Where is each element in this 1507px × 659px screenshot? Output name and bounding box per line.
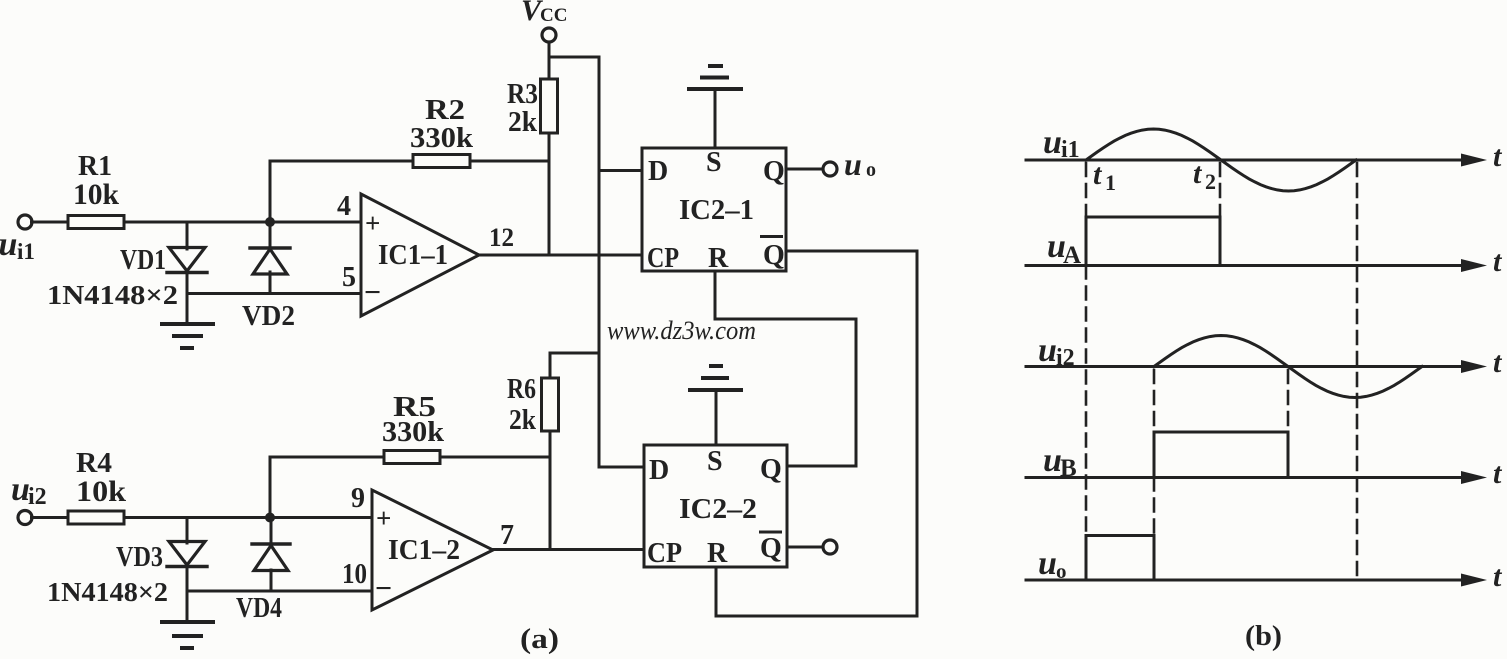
ground flipped above S IC2-2 xyxy=(690,366,741,445)
svg-text:D: D xyxy=(649,455,669,486)
svg-text:4: 4 xyxy=(337,191,351,222)
wire R6 top branch xyxy=(550,353,599,378)
wire xyxy=(32,221,69,224)
arrow axis 3 xyxy=(1461,360,1487,373)
resistor R2 xyxy=(413,155,470,168)
flip-flop IC2-2 xyxy=(644,445,787,567)
svg-text:u: u xyxy=(1038,332,1057,369)
svg-text:u: u xyxy=(1043,124,1062,161)
input terminal ui2 xyxy=(18,511,32,525)
svg-text:7: 7 xyxy=(500,520,514,551)
svg-text:10: 10 xyxy=(342,559,367,590)
svg-text:Q: Q xyxy=(760,533,782,564)
dashed line t1 xyxy=(1085,163,1088,536)
arrow axis 5 xyxy=(1461,574,1487,587)
arrow axis 1 xyxy=(1461,154,1487,167)
wire minus input 2 xyxy=(187,590,372,593)
svg-text:CP: CP xyxy=(647,538,682,569)
wire xyxy=(470,160,549,163)
svg-text:2k: 2k xyxy=(509,405,536,436)
axis uA xyxy=(1026,264,1465,267)
op-amp IC1-2 xyxy=(372,490,493,610)
wire Qbar IC2-1 to R IC2-2 xyxy=(716,251,917,616)
svg-text:R3: R3 xyxy=(507,79,538,110)
node junction ui1 xyxy=(265,217,275,227)
svg-text:o: o xyxy=(1056,559,1067,583)
svg-text:u: u xyxy=(844,146,862,182)
flip-flop IC2-1 xyxy=(642,148,786,271)
svg-text:IC2–1: IC2–1 xyxy=(679,195,754,226)
svg-text:1: 1 xyxy=(1105,170,1116,195)
svg-text:IC2–2: IC2–2 xyxy=(679,494,757,525)
waveform pulse uA xyxy=(1086,217,1220,266)
svg-text:R6: R6 xyxy=(507,374,536,405)
timing diagram part b xyxy=(1026,129,1465,580)
svg-text:1N4148×2: 1N4148×2 xyxy=(47,577,168,607)
ground flipped above S IC2-1 xyxy=(689,66,741,148)
svg-text:VD4: VD4 xyxy=(236,593,282,624)
svg-text:i1: i1 xyxy=(1061,137,1080,163)
svg-text:5: 5 xyxy=(342,262,356,293)
wire output IC1-1 to CP xyxy=(479,254,642,257)
svg-text:+: + xyxy=(365,208,380,238)
svg-text:VD3: VD3 xyxy=(116,542,163,573)
svg-text:1N4148×2: 1N4148×2 xyxy=(47,280,178,310)
arrow axis 2 xyxy=(1461,259,1487,272)
svg-text:CP: CP xyxy=(647,243,679,274)
arrowheads xyxy=(1461,154,1487,587)
wire output IC1-2 to CP xyxy=(493,548,644,551)
wire xyxy=(124,221,361,224)
svg-text:12: 12 xyxy=(489,223,514,252)
resistor R6 xyxy=(542,378,559,431)
ground xyxy=(162,324,213,348)
svg-text:IC1–2: IC1–2 xyxy=(388,535,460,566)
wire feedback bottom xyxy=(270,457,384,518)
circuit text labels xyxy=(0,0,876,655)
diode VD3 xyxy=(167,518,207,623)
svg-text:A: A xyxy=(1063,242,1081,269)
svg-text:R: R xyxy=(708,243,729,274)
wire D input IC2-1 xyxy=(599,169,642,172)
svg-text:B: B xyxy=(1060,455,1077,482)
svg-text:330k: 330k xyxy=(410,122,474,154)
svg-text:−: − xyxy=(375,572,392,605)
svg-text:VD2: VD2 xyxy=(242,301,295,332)
svg-text:u: u xyxy=(0,226,17,263)
svg-text:o: o xyxy=(866,159,876,181)
svg-text:10k: 10k xyxy=(76,475,126,508)
svg-text:www.dz3w.com: www.dz3w.com xyxy=(607,316,756,345)
svg-text:+: + xyxy=(376,503,391,533)
diode VD2 xyxy=(250,222,290,294)
wire xyxy=(32,516,69,519)
dashed line ui2 start xyxy=(1153,370,1156,536)
svg-text:S: S xyxy=(707,446,723,477)
timing labels xyxy=(1038,124,1503,652)
axis ui1 xyxy=(1026,159,1465,162)
svg-text:(b): (b) xyxy=(1245,620,1282,652)
waveform pulse uo xyxy=(1086,536,1154,581)
axis uo xyxy=(1026,579,1465,582)
wire D input IC2-2 xyxy=(599,466,644,469)
wire Vcc branch xyxy=(549,57,599,467)
svg-text:(a): (a) xyxy=(520,623,559,655)
svg-text:2: 2 xyxy=(1205,169,1216,194)
waveform sine ui1 xyxy=(1086,129,1356,191)
dashed line ui2 cross xyxy=(1287,370,1290,432)
axis uB xyxy=(1026,476,1465,479)
input terminal ui1 xyxy=(18,215,32,229)
svg-text:IC1–1: IC1–1 xyxy=(378,240,448,271)
ground xyxy=(162,622,213,648)
terminal Qbar IC2-2 xyxy=(823,540,837,554)
svg-text:VD1: VD1 xyxy=(120,245,166,276)
node junction ui2 xyxy=(265,513,275,523)
svg-text:D: D xyxy=(648,156,668,187)
resistor R1 xyxy=(68,216,124,229)
dashed line full xyxy=(1356,163,1359,580)
svg-text:Q: Q xyxy=(760,454,782,485)
svg-text:9: 9 xyxy=(351,483,365,514)
svg-text:i1: i1 xyxy=(17,239,35,264)
svg-text:10k: 10k xyxy=(73,178,119,211)
svg-text:CC: CC xyxy=(540,5,567,26)
axis ui2 xyxy=(1026,365,1465,368)
arrow axis 4 xyxy=(1461,471,1487,484)
wire minus input xyxy=(187,292,361,295)
svg-text:330k: 330k xyxy=(382,416,445,448)
wire xyxy=(548,42,551,79)
op-amp IC1-1 xyxy=(361,194,479,316)
wire R IC2-1 to Q IC2-2 xyxy=(715,271,856,466)
svg-text:u: u xyxy=(1038,545,1057,582)
resistor R5 xyxy=(384,451,440,464)
svg-text:i2: i2 xyxy=(28,484,47,510)
svg-text:2k: 2k xyxy=(508,107,537,138)
svg-text:R: R xyxy=(707,538,728,569)
Vcc terminal xyxy=(542,28,556,42)
svg-text:Q: Q xyxy=(763,240,785,271)
wire xyxy=(548,133,551,255)
svg-text:Q: Q xyxy=(763,156,785,187)
svg-text:−: − xyxy=(364,276,381,309)
svg-text:S: S xyxy=(706,147,722,178)
wire Q output to uo xyxy=(786,168,823,171)
wire xyxy=(440,456,550,459)
resistor R3 xyxy=(541,79,558,133)
wire xyxy=(124,516,372,519)
wire xyxy=(549,431,552,549)
waveform sine ui2 xyxy=(1154,336,1422,398)
diode VD1 xyxy=(167,222,207,324)
dashed line t2 xyxy=(1219,163,1222,217)
wire Qbar IC2-2 to terminal xyxy=(787,546,823,549)
output terminal uo xyxy=(823,162,837,176)
diode VD4 xyxy=(252,518,290,592)
waveform pulse uB xyxy=(1154,432,1288,478)
resistor R4 xyxy=(68,511,124,524)
wire feedback top xyxy=(270,161,413,222)
svg-text:i2: i2 xyxy=(1056,345,1075,371)
